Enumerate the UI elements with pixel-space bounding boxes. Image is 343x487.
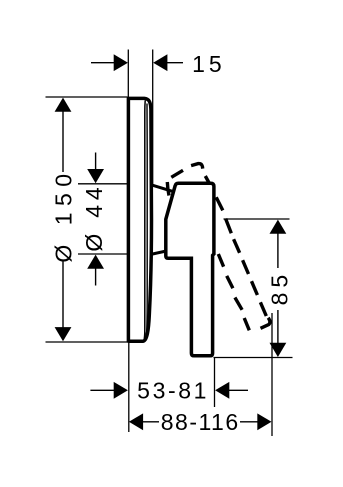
dash: rotated right edge c <box>205 176 209 183</box>
svg-text:15: 15 <box>192 51 226 77</box>
escutcheon plate (side view) <box>128 98 151 341</box>
dash: lever front edge 6 <box>260 302 266 316</box>
dimension Ø150: top arrow <box>55 98 72 112</box>
bottom extension line from dashed lever tip <box>271 313 273 436</box>
sleeve top edge <box>152 185 174 192</box>
handle body and lever (closed position) <box>166 183 214 355</box>
dashed lever outline (open position) <box>167 164 270 331</box>
svg-text:Ø 44: Ø 44 <box>81 183 107 252</box>
plate rim inner line 1 <box>144 100 145 340</box>
dash: lever tip corner cap <box>261 318 270 329</box>
dimension 85: top extension line <box>224 218 290 220</box>
dimension Ø44: top arrow (outside, pointing down) <box>95 153 97 171</box>
dimension 15: left extension line (wall/plate front) <box>127 50 129 98</box>
dash: lever front edge 1 <box>216 197 223 210</box>
dash: lever back edge 4 <box>244 318 249 330</box>
sleeve bottom edge <box>152 251 166 254</box>
dash: lever back edge 2 <box>227 276 233 288</box>
dash: lever front edge 2 <box>226 219 232 234</box>
dash: lever back edge 3 <box>235 298 242 310</box>
dash: rotated body slant edge <box>167 182 169 196</box>
dash: lever back edge 1 <box>218 254 223 267</box>
dash: rotated top edge b with apex curl <box>191 164 203 169</box>
dimension 15: left arrow <box>91 62 115 64</box>
svg-text:88-116: 88-116 <box>161 409 240 435</box>
svg-text:53-81: 53-81 <box>137 378 209 404</box>
svg-text:85: 85 <box>267 270 293 306</box>
dash: lever front edge 4 <box>243 260 249 274</box>
dimension 85: bottom extension line <box>214 357 293 359</box>
dimension 53-81: dimension line and arrows <box>90 389 115 391</box>
dash: lever front edge 3 <box>234 239 240 253</box>
dimension 85: bottom arrow <box>270 343 287 357</box>
plate rim inner line 2 <box>146 104 147 340</box>
dimension Ø44: bottom extension line <box>78 253 127 255</box>
dimension 15: right arrow <box>153 54 167 71</box>
dash: lever front edge 5 <box>252 281 258 295</box>
bottom extension line from plate front <box>128 343 130 432</box>
dimension Ø150: bottom arrow <box>55 327 72 341</box>
dimension Ø150: bottom extension line <box>46 341 128 343</box>
dimension Ø44: bottom arrow (outside, pointing up) <box>87 255 104 269</box>
dimension Ø44: top extension line <box>78 183 127 185</box>
dimension 15: right extension line (plate back) <box>152 50 154 185</box>
dimension Ø150: top extension line <box>46 96 128 98</box>
dimension 85: top arrow <box>270 220 287 234</box>
dash: rotated top edge a <box>171 170 183 177</box>
dimension 88-116: arrows pointing outward <box>129 413 143 430</box>
bottom extension line from lever edge <box>214 358 216 408</box>
svg-text:Ø 150: Ø 150 <box>51 167 77 262</box>
sleeve (escutcheon cone between plate and body) <box>152 185 175 254</box>
